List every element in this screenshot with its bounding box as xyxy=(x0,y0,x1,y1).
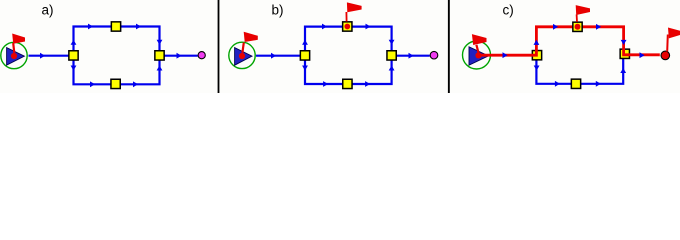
svg-text:c): c) xyxy=(503,2,514,17)
svg-text:a): a) xyxy=(42,2,54,17)
svg-text:b): b) xyxy=(272,2,284,17)
